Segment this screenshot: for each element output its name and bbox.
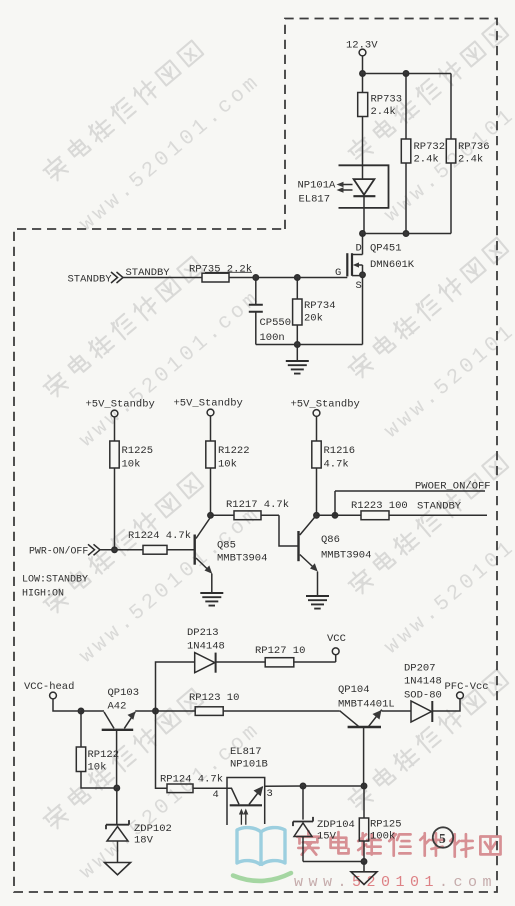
svg-text:RP124 4.7k: RP124 4.7k xyxy=(160,774,223,786)
junction xyxy=(332,513,337,518)
svg-text:RP736: RP736 xyxy=(458,141,490,153)
svg-text:12.3V: 12.3V xyxy=(346,40,378,52)
resistor RP735 2.2k xyxy=(189,264,347,283)
resistor R1223 100, net STANDBY out xyxy=(317,500,488,520)
svg-text:Q85: Q85 xyxy=(217,540,236,552)
ground under Q86 xyxy=(306,596,329,609)
wire source rail xyxy=(256,344,363,346)
svg-text:R1216: R1216 xyxy=(324,445,356,457)
svg-text:R1223 100: R1223 100 xyxy=(351,500,408,512)
node VCC-head xyxy=(24,681,81,711)
svg-text:LOW:STANDBY: LOW:STANDBY xyxy=(22,575,88,586)
resistor RP124 4.7k xyxy=(156,711,228,793)
svg-text:www.520101.com: www.520101.com xyxy=(294,874,497,891)
hot ground triangle under ZDP102 xyxy=(105,863,131,875)
svg-text:PFC-Vcc: PFC-Vcc xyxy=(445,681,489,693)
svg-text:DP207: DP207 xyxy=(404,663,436,675)
resistor R1222 10k xyxy=(206,416,250,515)
svg-text:+5V_Standby: +5V_Standby xyxy=(86,399,155,411)
zener diode ZDP104 15V xyxy=(293,786,355,862)
hot ground triangle under RP125 xyxy=(351,862,377,885)
svg-text:R1217 4.7k: R1217 4.7k xyxy=(226,499,289,511)
svg-text:2.4k: 2.4k xyxy=(458,154,483,166)
svg-text:PWR-ON/OFF: PWR-ON/OFF xyxy=(29,546,88,557)
svg-text:Q86: Q86 xyxy=(321,534,340,546)
wire rail QP103 to RP123 xyxy=(135,710,195,712)
svg-text:STANDBY: STANDBY xyxy=(68,274,113,286)
net PWOER_ON/OFF xyxy=(335,481,491,516)
junction xyxy=(78,708,83,713)
node PFC-Vcc terminal xyxy=(445,681,489,699)
svg-text:NP101A: NP101A xyxy=(298,180,337,192)
svg-text:MMBT3904: MMBT3904 xyxy=(321,550,371,562)
junction xyxy=(360,71,365,76)
svg-text:+5V_Standby: +5V_Standby xyxy=(174,398,243,410)
wire rail to QP103 xyxy=(81,710,104,712)
svg-text:R1222: R1222 xyxy=(218,445,250,457)
svg-text:R1224 4.7k: R1224 4.7k xyxy=(128,530,191,542)
svg-text:STANDBY: STANDBY xyxy=(417,501,462,513)
svg-text:10k: 10k xyxy=(122,459,141,471)
red chinese watermark bottom xyxy=(297,831,500,857)
svg-text:10k: 10k xyxy=(88,762,107,774)
svg-text:ZDP102: ZDP102 xyxy=(134,823,172,835)
zener diode ZDP102 18V xyxy=(106,788,172,863)
junction xyxy=(112,547,117,552)
svg-text:MMBT4401L: MMBT4401L xyxy=(338,699,395,711)
svg-text:4.7k: 4.7k xyxy=(324,459,349,471)
resistor RP733 xyxy=(358,74,402,167)
svg-text:DMN601K: DMN601K xyxy=(370,259,415,271)
node STANDBY input xyxy=(68,267,171,286)
svg-text:RP122: RP122 xyxy=(88,749,120,761)
svg-text:CP550: CP550 xyxy=(260,317,292,329)
svg-text:10k: 10k xyxy=(218,459,237,471)
blue book logo watermark xyxy=(237,828,285,866)
transistor QP103 A42 xyxy=(102,687,139,788)
transistor Q86 MMBT3904 xyxy=(299,517,372,597)
diode DP207 1N4148 SOD-80 xyxy=(382,663,460,723)
optocoupler NP101B EL817 (transistor side) xyxy=(213,746,273,825)
svg-text:NP101B: NP101B xyxy=(230,759,268,771)
wire standby to gate xyxy=(123,277,202,279)
svg-text:RP734: RP734 xyxy=(304,300,336,312)
ground under Q85 xyxy=(200,593,223,606)
svg-text:VCC-head: VCC-head xyxy=(24,681,74,693)
resistor R1216 4.7k xyxy=(312,417,355,516)
svg-text:RP735 2.2k: RP735 2.2k xyxy=(189,264,252,276)
junction xyxy=(360,231,365,236)
svg-text:+5V_Standby: +5V_Standby xyxy=(291,399,360,411)
wire pin3 rail xyxy=(265,785,364,787)
resistor RP734 20k xyxy=(293,278,336,345)
svg-text:100n: 100n xyxy=(260,332,285,344)
junction xyxy=(300,783,305,788)
junction Q85 collector xyxy=(208,513,213,518)
svg-text:18V: 18V xyxy=(134,835,154,847)
svg-text:2.4k: 2.4k xyxy=(371,106,396,118)
wire R1217 to Q86 base xyxy=(279,515,299,546)
junction xyxy=(253,275,258,280)
wire top rail xyxy=(363,73,452,75)
svg-text:3: 3 xyxy=(267,788,273,800)
svg-text:VCC: VCC xyxy=(327,633,346,645)
resistor RP736 xyxy=(446,74,489,234)
wire base Q85 xyxy=(100,549,143,551)
node VCC terminal xyxy=(327,633,346,662)
svg-text:A42: A42 xyxy=(108,701,127,713)
page number 5 circled xyxy=(433,827,453,847)
junction xyxy=(114,785,119,790)
node +5V_Standby 1 xyxy=(86,399,155,417)
capacitor CP550 100n xyxy=(249,278,291,345)
svg-text:S: S xyxy=(356,280,362,292)
resistor RP127 10 xyxy=(255,645,336,667)
svg-text:1N4148: 1N4148 xyxy=(404,676,442,688)
node PWR-ON/OFF input xyxy=(29,544,100,556)
node +5V_Standby 3 xyxy=(291,399,360,417)
wire 12.3V down xyxy=(362,56,364,74)
svg-text:1N4148: 1N4148 xyxy=(187,641,225,653)
junction xyxy=(295,275,300,280)
svg-text:R1225: R1225 xyxy=(122,445,154,457)
svg-text:EL817: EL817 xyxy=(299,194,331,206)
svg-text:PWOER_ON/OFF: PWOER_ON/OFF xyxy=(415,481,491,493)
resistor R1224 4.7k xyxy=(128,530,194,554)
svg-text:QP104: QP104 xyxy=(338,684,370,696)
svg-text:2.4k: 2.4k xyxy=(414,154,439,166)
diode DP213 1N4148 xyxy=(156,627,266,711)
svg-text:15V: 15V xyxy=(317,831,337,843)
wire bottom rail of pullups xyxy=(363,233,452,235)
transistor QP104 MMBT4401L xyxy=(338,684,395,786)
svg-text:RP127 10: RP127 10 xyxy=(255,645,305,657)
node 12.3V terminal xyxy=(346,40,378,56)
text LOW:STANDBY / HIGH:ON xyxy=(22,575,88,600)
svg-text:QP103: QP103 xyxy=(108,687,140,699)
resistor RP123 10 xyxy=(189,692,340,715)
svg-text:5: 5 xyxy=(439,831,446,846)
svg-text:QP451: QP451 xyxy=(370,243,402,255)
node +5V_Standby 2 xyxy=(174,398,243,416)
junction xyxy=(403,71,408,76)
ground under RP734 xyxy=(286,345,309,374)
junction xyxy=(403,231,408,236)
transistor QP451 DMN601K mosfet xyxy=(335,234,415,345)
svg-text:100k: 100k xyxy=(370,831,395,843)
resistor R1217 4.7k xyxy=(211,499,290,520)
junction xyxy=(361,859,366,864)
svg-text:DP213: DP213 xyxy=(187,627,219,639)
optocoupler NP101A EL817 (LED side) xyxy=(298,165,389,234)
svg-text:SOD-80: SOD-80 xyxy=(404,690,442,702)
svg-text:ZDP104: ZDP104 xyxy=(317,819,355,831)
svg-text:RP732: RP732 xyxy=(414,141,446,153)
svg-text:RP733: RP733 xyxy=(371,94,403,106)
resistor RP125 100k xyxy=(359,786,401,862)
junction xyxy=(153,708,158,713)
svg-text:EL817: EL817 xyxy=(230,746,262,758)
wire zener to rp125 bottom xyxy=(303,861,364,863)
svg-text:MMBT3904: MMBT3904 xyxy=(217,553,267,565)
svg-text:RP125: RP125 xyxy=(370,819,402,831)
svg-text:20k: 20k xyxy=(304,313,323,325)
resistor RP122 10k xyxy=(76,711,119,788)
svg-text:HIGH:ON: HIGH:ON xyxy=(22,589,64,600)
svg-text:4: 4 xyxy=(213,789,219,801)
junction Q86 collector xyxy=(314,513,319,518)
svg-text:D: D xyxy=(356,243,362,255)
svg-text:RP123 10: RP123 10 xyxy=(189,692,239,704)
resistor R1225 10k xyxy=(110,417,153,550)
junction xyxy=(361,783,366,788)
resistor RP732 xyxy=(401,74,445,234)
junction xyxy=(295,342,300,347)
transistor Q85 MMBT3904 xyxy=(195,517,268,594)
